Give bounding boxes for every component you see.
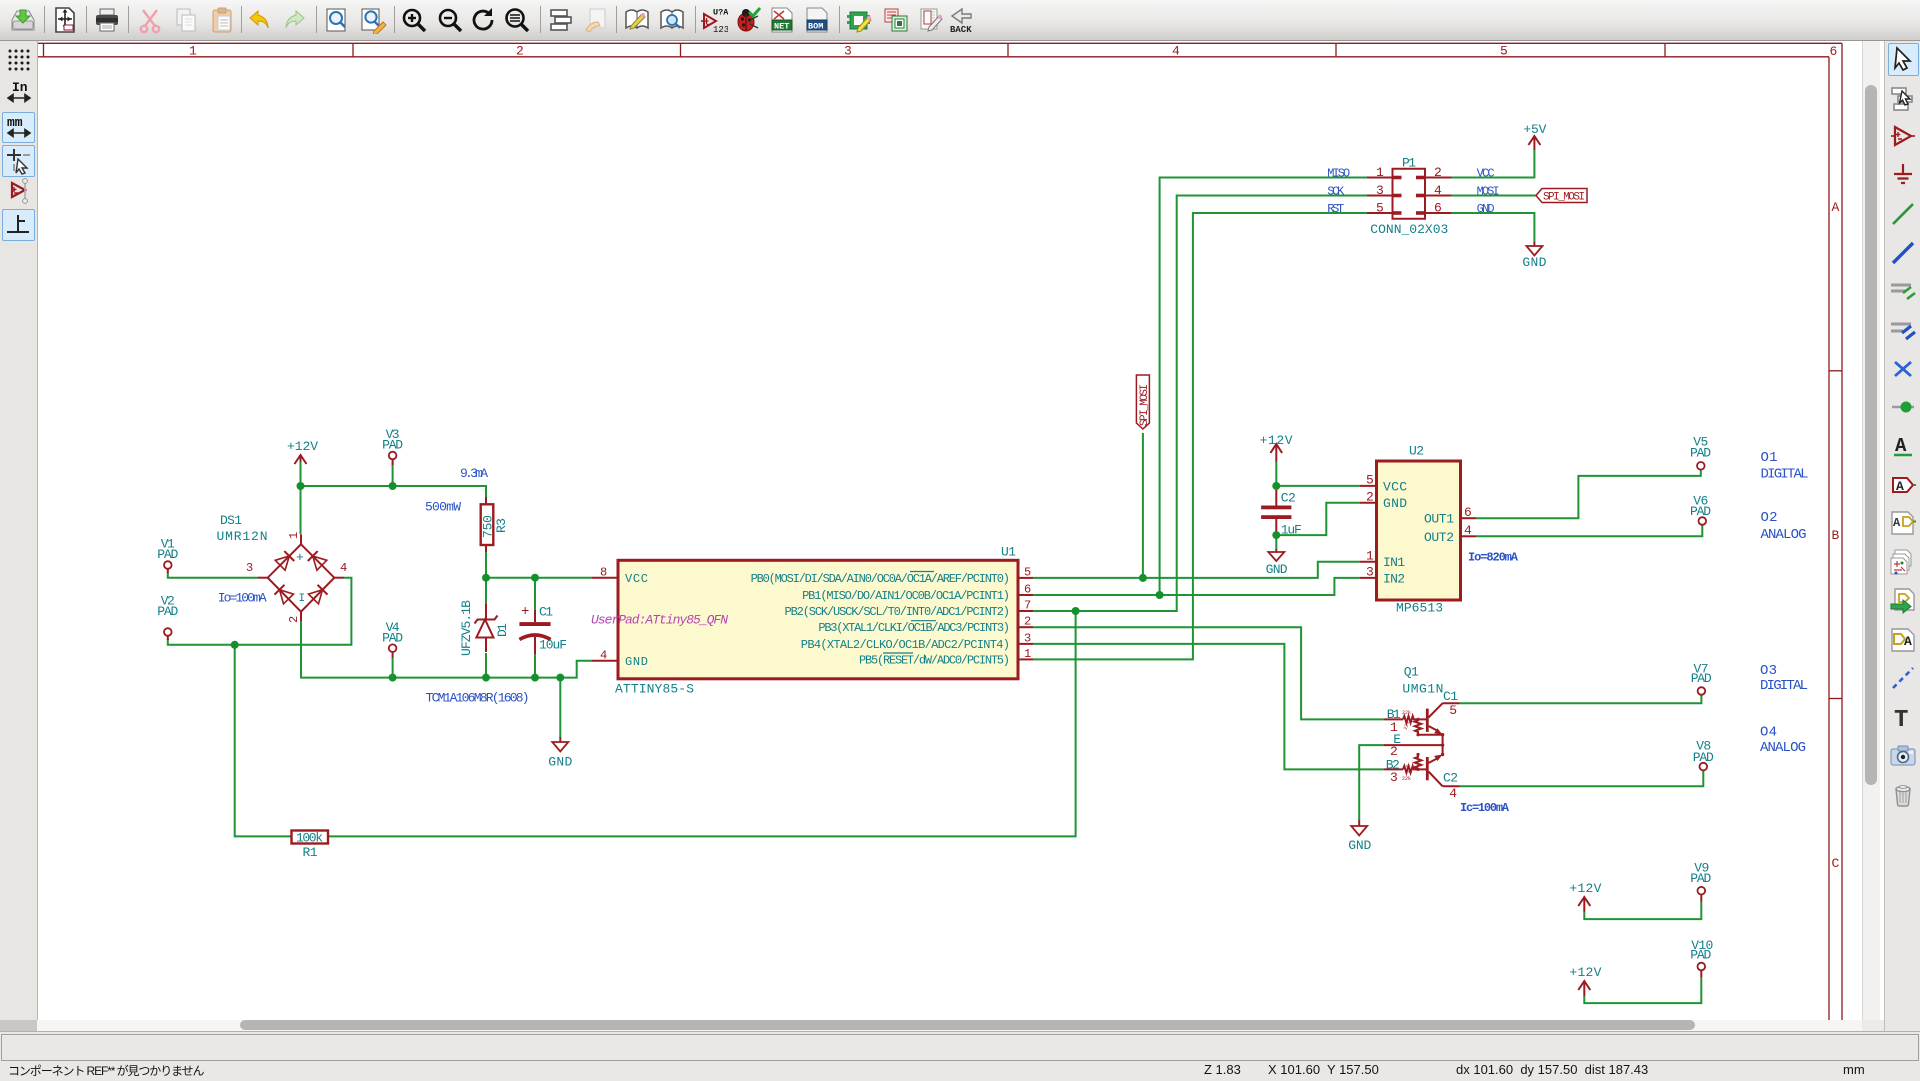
svg-text:ANALOG: ANALOG (1761, 527, 1807, 543)
svg-text:PAD: PAD (1693, 750, 1714, 765)
svg-text:4: 4 (1172, 44, 1180, 59)
svg-text:Q1: Q1 (1404, 665, 1419, 680)
svg-text:IN1: IN1 (1383, 555, 1405, 570)
U2 pin 2 GND (1360, 489, 1407, 511)
svg-text:OUT2: OUT2 (1424, 530, 1454, 545)
wire U2 VCC row (1276, 485, 1360, 487)
label O2 ANALOG (1761, 510, 1807, 543)
power +5V (1523, 122, 1546, 150)
wire OUT1 to V5 (1476, 470, 1701, 518)
junction node C1 top (531, 574, 539, 582)
power +12V (V10) (1569, 965, 1601, 996)
field TCM1A106M8R(1608) (426, 691, 530, 706)
svg-text:4: 4 (1449, 786, 1457, 801)
svg-text:PAD: PAD (382, 438, 403, 453)
ground GND (Q1) (1348, 820, 1371, 853)
pad V9 (1690, 861, 1711, 902)
svg-text:3: 3 (1366, 565, 1374, 580)
wire pin7 row to SCK (1033, 196, 1367, 612)
svg-text:100k: 100k (296, 831, 323, 846)
junction node +12V/bridge (297, 482, 305, 490)
svg-text:PAD: PAD (1690, 445, 1711, 460)
svg-text:A: A (1896, 479, 1904, 494)
pad V6 (1690, 494, 1711, 525)
svg-text:4: 4 (340, 561, 347, 575)
label O4 ANALOG (1760, 725, 1806, 756)
svg-text:1: 1 (189, 44, 197, 59)
capacitor C2 (1261, 491, 1302, 538)
svg-text:SPI_MOSI: SPI_MOSI (1543, 192, 1585, 204)
wire OUT2 to V6 (1476, 525, 1702, 536)
svg-text:PAD: PAD (1690, 504, 1711, 519)
U1 pin 6 PB1 (802, 583, 1033, 604)
svg-text:GND: GND (625, 655, 648, 669)
svg-text:5: 5 (1024, 566, 1031, 580)
svg-text:3: 3 (1390, 770, 1398, 785)
wire V9 to +12V (1584, 902, 1701, 920)
wire E to GND (1359, 745, 1384, 820)
svg-text:ATTINY85-S: ATTINY85-S (615, 682, 694, 697)
wire pin1 row to RST (1033, 213, 1367, 659)
svg-text:10uF: 10uF (539, 638, 567, 653)
svg-text:4: 4 (1434, 183, 1442, 198)
wire C2 collector to V8 (1460, 771, 1704, 786)
pad V10 (1690, 938, 1713, 978)
zener diode D1 (459, 600, 510, 656)
IC U2 MP6513 body (1377, 444, 1461, 616)
svg-text:mm: mm (7, 115, 23, 130)
bridge rectifier DS1 (217, 513, 348, 623)
U1 pin 3 PB4 (801, 631, 1033, 652)
junction node GND rail (556, 674, 564, 682)
ground GND (C1 rail) (548, 737, 572, 770)
svg-text:O4: O4 (1760, 725, 1777, 741)
svg-text:U?A: U?A (713, 8, 728, 18)
svg-text:NET: NET (774, 22, 789, 32)
global label SPI_MOSI (horizontal) (1536, 189, 1587, 204)
wire +12V rail y486 (301, 462, 487, 534)
svg-text:C: C (1832, 856, 1840, 871)
svg-text:+12V: +12V (1569, 881, 1601, 896)
junction node C2 bottom (1272, 531, 1280, 539)
wire pin5 row to IN1 (1033, 562, 1360, 578)
svg-text:C1: C1 (539, 605, 553, 620)
wire P1 MOSI to label (1452, 195, 1536, 197)
svg-text:UMR12N: UMR12N (217, 529, 268, 544)
power +12V (bridge) (287, 439, 318, 464)
label O3 DIGITAL (1760, 663, 1808, 694)
wire pin2 row to B1 (1033, 627, 1384, 719)
U1 pin 2 PB3 (818, 615, 1033, 636)
wire V2 rail y645 (168, 578, 352, 645)
wire +12V to C2 top (1275, 462, 1277, 506)
svg-text:UMG1N: UMG1N (1402, 682, 1443, 697)
IC U1 ATTINY85-S body (591, 545, 1018, 697)
svg-text:IN2: IN2 (1383, 571, 1405, 586)
svg-text:+: + (521, 604, 529, 620)
svg-text:22k: 22k (1402, 776, 1411, 782)
svg-text:4: 4 (1464, 523, 1472, 538)
svg-text:O2: O2 (1761, 510, 1778, 526)
svg-text:1: 1 (1024, 647, 1031, 661)
svg-text:C2: C2 (1443, 771, 1458, 786)
svg-text:6: 6 (1464, 505, 1472, 520)
svg-text:Io=820mA: Io=820mA (1468, 551, 1519, 565)
wire P1 GND down (1452, 213, 1535, 242)
svg-text:ANALOG: ANALOG (1760, 740, 1806, 756)
svg-text:PAD: PAD (1691, 671, 1712, 686)
svg-text:2: 2 (1366, 489, 1374, 504)
svg-text:DS1: DS1 (220, 513, 242, 528)
svg-text:BACK: BACK (950, 25, 972, 34)
svg-text:A: A (1904, 634, 1912, 649)
svg-text:SCK: SCK (1327, 184, 1345, 198)
connector P1 CONN_02X03 (1367, 156, 1452, 237)
svg-text:GND: GND (1348, 838, 1371, 853)
power +12V (C2) (1260, 433, 1293, 461)
svg-text:8: 8 (600, 566, 607, 580)
svg-text:2: 2 (516, 44, 524, 59)
wire V1 to bridge (168, 572, 258, 578)
field Io=100mA (218, 591, 267, 606)
svg-text:PB0(MOSI/DI/SDA/AIN0/OC0A/OC1A: PB0(MOSI/DI/SDA/AIN0/OC0A/OC1A/AREF/PCIN… (751, 572, 1010, 586)
svg-text:R3: R3 (494, 518, 509, 533)
U1 pin 4 GND (592, 649, 648, 670)
label O1 DIGITAL (1761, 450, 1809, 483)
wire R1 to pin7 (328, 611, 1076, 836)
wire P1 VCC to +5V (1452, 150, 1535, 178)
svg-text:MP6513: MP6513 (1396, 601, 1443, 616)
svg-text:D1: D1 (495, 623, 510, 637)
wire V10 to +12V (1584, 977, 1701, 1003)
label RST (1327, 202, 1344, 216)
pad V7 (1691, 661, 1712, 695)
wire V3 drop (392, 462, 394, 486)
U2 pin 6 OUT1 (1424, 505, 1476, 527)
svg-text:+5V: +5V (1523, 122, 1546, 137)
svg-text:4: 4 (600, 649, 607, 663)
wire pin3 row to B2 (1033, 644, 1384, 770)
junction node R1/pin7 (1072, 607, 1080, 615)
svg-text:PB1(MISO/DO/AIN1/OC0B/OC1A/PCI: PB1(MISO/DO/AIN1/OC0B/OC1A/PCINT1) (802, 589, 1010, 603)
svg-text:1uF: 1uF (1281, 522, 1302, 537)
svg-text:VCC: VCC (625, 572, 648, 586)
junction node SPI_MOSI (1139, 574, 1147, 582)
U1 pin 7 PB2 (785, 599, 1034, 620)
pad V5 (1690, 435, 1711, 470)
svg-text:PAD: PAD (1690, 947, 1711, 962)
svg-text:+12V: +12V (287, 439, 318, 454)
global label SPI_MOSI (vertical) (1136, 375, 1151, 429)
svg-text:PB5(RESET/dW/ADC0/PCINT5): PB5(RESET/dW/ADC0/PCINT5) (859, 653, 1010, 667)
field 9.3mA (460, 466, 488, 481)
svg-text:22k: 22k (1403, 720, 1411, 730)
label VCC (1477, 166, 1495, 180)
junction node V3 (389, 482, 397, 490)
wire bridge top (300, 486, 302, 534)
svg-text:PB3(XTAL1/CLKI/OC1B/ADC3/PCINT: PB3(XTAL1/CLKI/OC1B/ADC3/PCINT3) (818, 621, 1010, 635)
svg-text:7: 7 (1024, 599, 1031, 613)
svg-text:DIGITAL: DIGITAL (1760, 678, 1808, 694)
svg-text:2: 2 (287, 616, 301, 623)
wire R1 branch (235, 645, 292, 837)
svg-text:22k: 22k (1402, 710, 1411, 716)
svg-text:VCC: VCC (1477, 166, 1495, 180)
svg-text:GND: GND (1266, 562, 1288, 577)
svg-text:PB2(SCK/USCK/SCL/T0/INT0/ADC1/: PB2(SCK/USCK/SCL/T0/INT0/ADC1/PCINT2) (785, 605, 1011, 619)
wire pin6 row to IN2 (1033, 578, 1360, 595)
svg-text:5: 5 (1500, 44, 1508, 59)
pad V1 (157, 537, 178, 574)
svg-text:2: 2 (1024, 615, 1031, 629)
wire C1 collector to V7 (1460, 695, 1702, 703)
wire GND rail y678 (301, 622, 592, 678)
svg-text:UFZV5.1B: UFZV5.1B (459, 600, 474, 656)
svg-text:MISO: MISO (1327, 166, 1350, 180)
svg-text:B: B (1832, 528, 1840, 543)
svg-text:PAD: PAD (382, 631, 403, 646)
svg-text:RST: RST (1327, 202, 1344, 216)
svg-text:6: 6 (1830, 44, 1838, 59)
field 500mW (425, 500, 461, 515)
junction node V4 (389, 674, 397, 682)
U1 pin 8 VCC (592, 566, 648, 587)
svg-text:123: 123 (713, 25, 728, 34)
svg-text:3: 3 (246, 561, 253, 575)
svg-text:DIGITAL: DIGITAL (1761, 466, 1809, 482)
svg-text:5: 5 (1376, 201, 1384, 216)
wire C2 bottom to GND (1275, 519, 1277, 549)
pad V2 (157, 594, 178, 641)
svg-text:SPI_MOSI: SPI_MOSI (1139, 384, 1151, 426)
power +12V (V9) (1569, 881, 1601, 912)
wire C1 column (534, 578, 536, 678)
resistor R1 (292, 831, 329, 861)
pad V3 (382, 427, 403, 465)
svg-text:GND: GND (1522, 255, 1546, 270)
svg-text:BOM: BOM (808, 22, 823, 32)
wire R3-D1 column (485, 545, 487, 678)
svg-text:GND: GND (548, 755, 572, 770)
ground GND (P1) (1522, 242, 1546, 270)
svg-text:PAD: PAD (157, 604, 178, 619)
svg-text:C2: C2 (1281, 491, 1296, 506)
svg-text:9.3mA: 9.3mA (460, 466, 488, 481)
svg-text:5: 5 (1366, 473, 1374, 488)
ground GND (C2) (1266, 549, 1288, 577)
junction node D1 bottom (482, 674, 490, 682)
svg-text:+12V: +12V (1569, 965, 1601, 980)
svg-text:+12V: +12V (1260, 433, 1293, 448)
wire GND branch (559, 678, 561, 737)
pad V8 (1693, 739, 1714, 771)
svg-text:500mW: 500mW (425, 500, 461, 515)
svg-text:PB4(XTAL2/CLKO/OC1B/ADC2/PCINT: PB4(XTAL2/CLKO/OC1B/ADC2/PCINT4) (801, 638, 1010, 652)
svg-text:3: 3 (1024, 631, 1031, 645)
svg-text:3: 3 (844, 44, 852, 59)
U2 pin 3 IN2 (1360, 565, 1405, 587)
svg-text:TCM1A106M8R(1608): TCM1A106M8R(1608) (426, 691, 530, 706)
junction node C2 top (1272, 482, 1280, 490)
label MISO (1327, 166, 1350, 180)
svg-text:GND: GND (1477, 202, 1495, 216)
wire U2 GND pin (1276, 503, 1360, 535)
label MOSI (1477, 184, 1500, 198)
svg-text:A: A (1832, 200, 1840, 215)
svg-text:VCC: VCC (1383, 479, 1407, 494)
svg-text:1: 1 (1366, 548, 1374, 563)
svg-text:P1: P1 (1402, 156, 1416, 171)
svg-text:A: A (1893, 516, 1901, 530)
svg-text:1: 1 (287, 532, 301, 539)
junction node D1 top (482, 574, 490, 582)
capacitor C1 (519, 604, 567, 654)
resistor R3 (481, 486, 510, 545)
svg-text:U2: U2 (1409, 444, 1424, 459)
U2 pin 4 OUT2 (1424, 523, 1476, 545)
svg-text:CONN_02X03: CONN_02X03 (1370, 222, 1448, 237)
svg-text:C1: C1 (1443, 689, 1458, 704)
wire VCC rail y578 (486, 577, 592, 579)
field Ic=100mA (1460, 801, 1510, 815)
svg-text:+: + (296, 550, 304, 565)
svg-text:6: 6 (1434, 201, 1442, 216)
svg-text:UserPad:ATtiny85_QFN: UserPad:ATtiny85_QFN (591, 613, 728, 628)
U1 pin 1 PB5 (859, 647, 1033, 668)
U1 pin 5 PB0 (751, 566, 1033, 587)
svg-text:5: 5 (1449, 703, 1457, 718)
svg-text:I: I (299, 593, 306, 605)
pad V4 (382, 620, 403, 678)
svg-text:In: In (12, 80, 28, 95)
svg-text:6: 6 (1024, 583, 1031, 597)
svg-text:1: 1 (1376, 165, 1384, 180)
svg-text:R1: R1 (303, 845, 318, 860)
svg-text:Io=100mA: Io=100mA (218, 591, 267, 606)
svg-text:Ic=100mA: Ic=100mA (1460, 801, 1510, 815)
junction node MISO (1156, 591, 1164, 599)
label SCK (1327, 184, 1345, 198)
junction node V2/R1 (231, 641, 239, 649)
svg-text:PAD: PAD (157, 547, 178, 562)
U2 pin 5 VCC (1360, 473, 1407, 495)
svg-text:3: 3 (1376, 183, 1384, 198)
svg-text:2: 2 (1434, 165, 1442, 180)
svg-text:GND: GND (1383, 496, 1407, 511)
wire SPI_MOSI stub (1142, 433, 1144, 578)
label GND (1477, 202, 1495, 216)
svg-text:O1: O1 (1761, 450, 1778, 466)
wire MISO vertical (1160, 178, 1367, 596)
svg-text:U1: U1 (1001, 545, 1016, 560)
svg-text:PAD: PAD (1690, 871, 1711, 886)
svg-text:O3: O3 (1760, 663, 1777, 679)
svg-text:T: T (1894, 707, 1908, 731)
U2 pin 1 IN1 (1360, 548, 1405, 570)
svg-text:OUT1: OUT1 (1424, 512, 1454, 527)
junction node C1 bottom (531, 674, 539, 682)
transistor Q1 UMG1N (1384, 665, 1460, 802)
svg-text:MOSI: MOSI (1477, 184, 1500, 198)
field Io=820mA (1468, 551, 1519, 565)
